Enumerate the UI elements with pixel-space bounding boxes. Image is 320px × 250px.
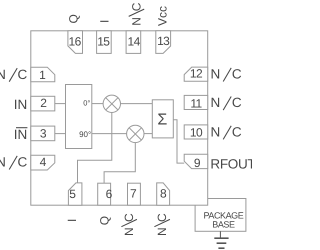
wire mixer2 to sigma [144, 133, 152, 135]
label IN-bar pin3 [14, 127, 28, 142]
label N/C pin7 (rotated) [121, 213, 136, 236]
mixer M1 [103, 95, 120, 112]
svg-text:C: C [232, 67, 242, 82]
svg-text:Q: Q [97, 216, 111, 225]
svg-text:5: 5 [69, 187, 76, 201]
label N/C pin12 [211, 67, 242, 82]
svg-text:11: 11 [190, 96, 202, 110]
svg-text:4: 4 [40, 155, 47, 169]
label N/C pin1 [0, 67, 27, 82]
svg-text:C: C [155, 213, 169, 222]
svg-text:90°: 90° [79, 130, 91, 139]
mixer M2 [127, 125, 144, 142]
svg-text:Σ: Σ [157, 111, 167, 128]
pin 7 [128, 183, 141, 205]
svg-text:C: C [232, 95, 242, 110]
wire mixer2 to pin6 [104, 143, 135, 184]
svg-text:1: 1 [39, 68, 46, 82]
pin 3 [31, 126, 55, 141]
pin 16 [68, 31, 83, 54]
pin 10 [184, 125, 208, 140]
wire hybrid 90-deg to mixer2 [92, 133, 127, 135]
wire pin3 to hybrid [55, 133, 66, 135]
wire mixer1 to sigma [121, 103, 153, 105]
svg-text:13: 13 [157, 34, 170, 48]
svg-text:N: N [211, 95, 221, 110]
pin 1 [31, 67, 55, 82]
svg-text:IN: IN [14, 97, 28, 112]
pin 15 [97, 31, 112, 54]
svg-text:I: I [65, 219, 79, 222]
svg-text:3: 3 [40, 127, 47, 141]
svg-text:N: N [0, 155, 6, 170]
pin 14 [126, 31, 141, 54]
label N/C pin11 [211, 95, 242, 110]
pin 4 [31, 155, 55, 170]
pin 2 [31, 96, 55, 111]
summer block [152, 100, 173, 138]
IC body [31, 31, 208, 205]
svg-text:0°: 0° [83, 99, 90, 108]
pin 5 [68, 183, 82, 205]
pin 6 [98, 183, 113, 205]
label N/C pin8 (rotated) [154, 213, 170, 236]
svg-text:9: 9 [194, 156, 201, 170]
svg-text:I: I [97, 20, 111, 23]
pin 8 [157, 183, 170, 205]
svg-text:12: 12 [190, 67, 203, 81]
label N/C pin10 [211, 125, 242, 140]
svg-text:N: N [0, 67, 6, 82]
ground [214, 231, 228, 248]
svg-text:N: N [129, 17, 143, 26]
package base box [195, 199, 246, 232]
label N/C pin14 (rotated) [129, 2, 145, 26]
svg-text:Vcc: Vcc [156, 6, 170, 26]
wire pin2 to hybrid [55, 103, 66, 105]
svg-text:N: N [211, 67, 221, 82]
svg-text:7: 7 [130, 187, 137, 201]
label N/C pin4 [0, 155, 27, 170]
svg-text:Q: Q [66, 14, 80, 23]
svg-text:C: C [122, 213, 136, 222]
svg-text:14: 14 [128, 34, 141, 48]
svg-text:N: N [122, 227, 136, 236]
pin 13 [156, 31, 171, 54]
svg-text:15: 15 [97, 34, 110, 48]
quadrature hybrid block [66, 85, 92, 149]
wire sigma to pin9 [173, 120, 184, 163]
pin 9 [184, 154, 208, 170]
wire hybrid 0-deg to mixer1 [92, 103, 103, 105]
svg-text:C: C [232, 125, 242, 140]
svg-text:C: C [129, 2, 143, 11]
wire mixer1 to pin5 [78, 113, 112, 183]
svg-text:BASE: BASE [212, 219, 235, 229]
svg-text:10: 10 [190, 126, 203, 140]
svg-text:6: 6 [106, 187, 113, 201]
pin 12 [184, 67, 208, 82]
svg-text:RFOUT: RFOUT [210, 157, 252, 172]
svg-text:2: 2 [40, 96, 47, 110]
svg-text:C: C [18, 155, 28, 170]
svg-text:IN: IN [14, 127, 28, 142]
svg-text:16: 16 [69, 35, 82, 49]
svg-text:N: N [155, 227, 169, 236]
svg-text:C: C [18, 67, 28, 82]
svg-text:8: 8 [160, 187, 167, 201]
pin 11 [184, 95, 208, 110]
svg-text:N: N [211, 125, 221, 140]
